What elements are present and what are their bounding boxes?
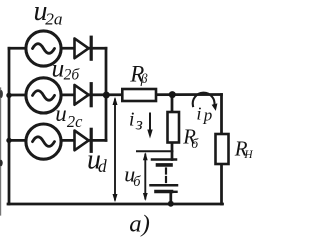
node dot battery bottom	[168, 201, 174, 207]
source U2c circle	[26, 124, 61, 159]
battery cell2 long plate	[151, 184, 178, 187]
scan artifact blob upper	[0, 90, 3, 98]
node dot left bus row3	[6, 138, 11, 143]
svg-text:2с: 2с	[67, 112, 83, 131]
svg-text:а): а)	[129, 211, 150, 238]
resistor Rb box	[168, 112, 180, 143]
label u2b	[52, 54, 81, 84]
dimension arrow ud	[113, 97, 118, 202]
diode D3	[75, 129, 92, 151]
label ub	[124, 162, 141, 191]
resistor Rn box	[216, 134, 229, 164]
label Rb	[182, 127, 199, 151]
battery cell1 short plate	[158, 163, 172, 167]
svg-text:u: u	[55, 101, 66, 126]
node dot left bus row2	[6, 93, 11, 98]
svg-text:d: d	[98, 156, 107, 176]
scan artifact blob lower	[0, 160, 3, 166]
svg-text:i: i	[196, 104, 201, 124]
battery dash-dot mark	[174, 191, 177, 193]
label ud	[87, 145, 107, 176]
label ip	[196, 104, 212, 125]
wire battery bottom stub	[169, 192, 172, 205]
diode D2	[75, 84, 92, 106]
wire battery branch vertical	[171, 95, 174, 160]
source U2a circle	[26, 31, 61, 66]
resistor Rv box	[122, 89, 156, 101]
battery tick line	[137, 150, 173, 152]
svg-text:2б: 2б	[64, 67, 81, 84]
wire left bus vertical	[8, 48, 11, 204]
node dot after Rv	[169, 91, 176, 98]
node dot cathode bus	[103, 92, 110, 99]
battery dashed link	[165, 169, 167, 184]
wire cathode bus vertical	[105, 48, 108, 140]
wire bottom horizontal	[8, 203, 223, 206]
svg-text:u: u	[52, 54, 65, 83]
svg-text:Н: Н	[243, 149, 253, 161]
diode D1	[75, 37, 92, 59]
label Rn	[234, 137, 254, 161]
dimension arrow ub	[143, 152, 148, 201]
svg-text:з: з	[135, 113, 143, 133]
battery cell1 long plate	[152, 158, 176, 161]
label iz	[129, 108, 143, 133]
svg-text:2а: 2а	[45, 9, 62, 28]
current arrow ip curved	[193, 93, 218, 111]
current arrow iz	[147, 114, 152, 139]
svg-text:р: р	[203, 106, 213, 125]
wire right load branch vertical	[220, 95, 223, 205]
label u2a	[34, 0, 63, 28]
label u2c	[55, 101, 83, 131]
label Rv	[129, 61, 148, 86]
wire row3 phase c horizontal	[9, 139, 106, 142]
source U2b circle	[26, 78, 61, 113]
svg-text:б: б	[133, 174, 141, 190]
scan artifact left edge line	[0, 88, 2, 215]
svg-text:б: б	[191, 136, 199, 151]
battery cell2 short plate	[156, 190, 172, 194]
wire row2 phase b horizontal	[9, 93, 222, 96]
svg-text:i: i	[129, 108, 135, 130]
svg-text:β: β	[140, 71, 148, 86]
wire row1 phase a horizontal	[9, 47, 106, 50]
